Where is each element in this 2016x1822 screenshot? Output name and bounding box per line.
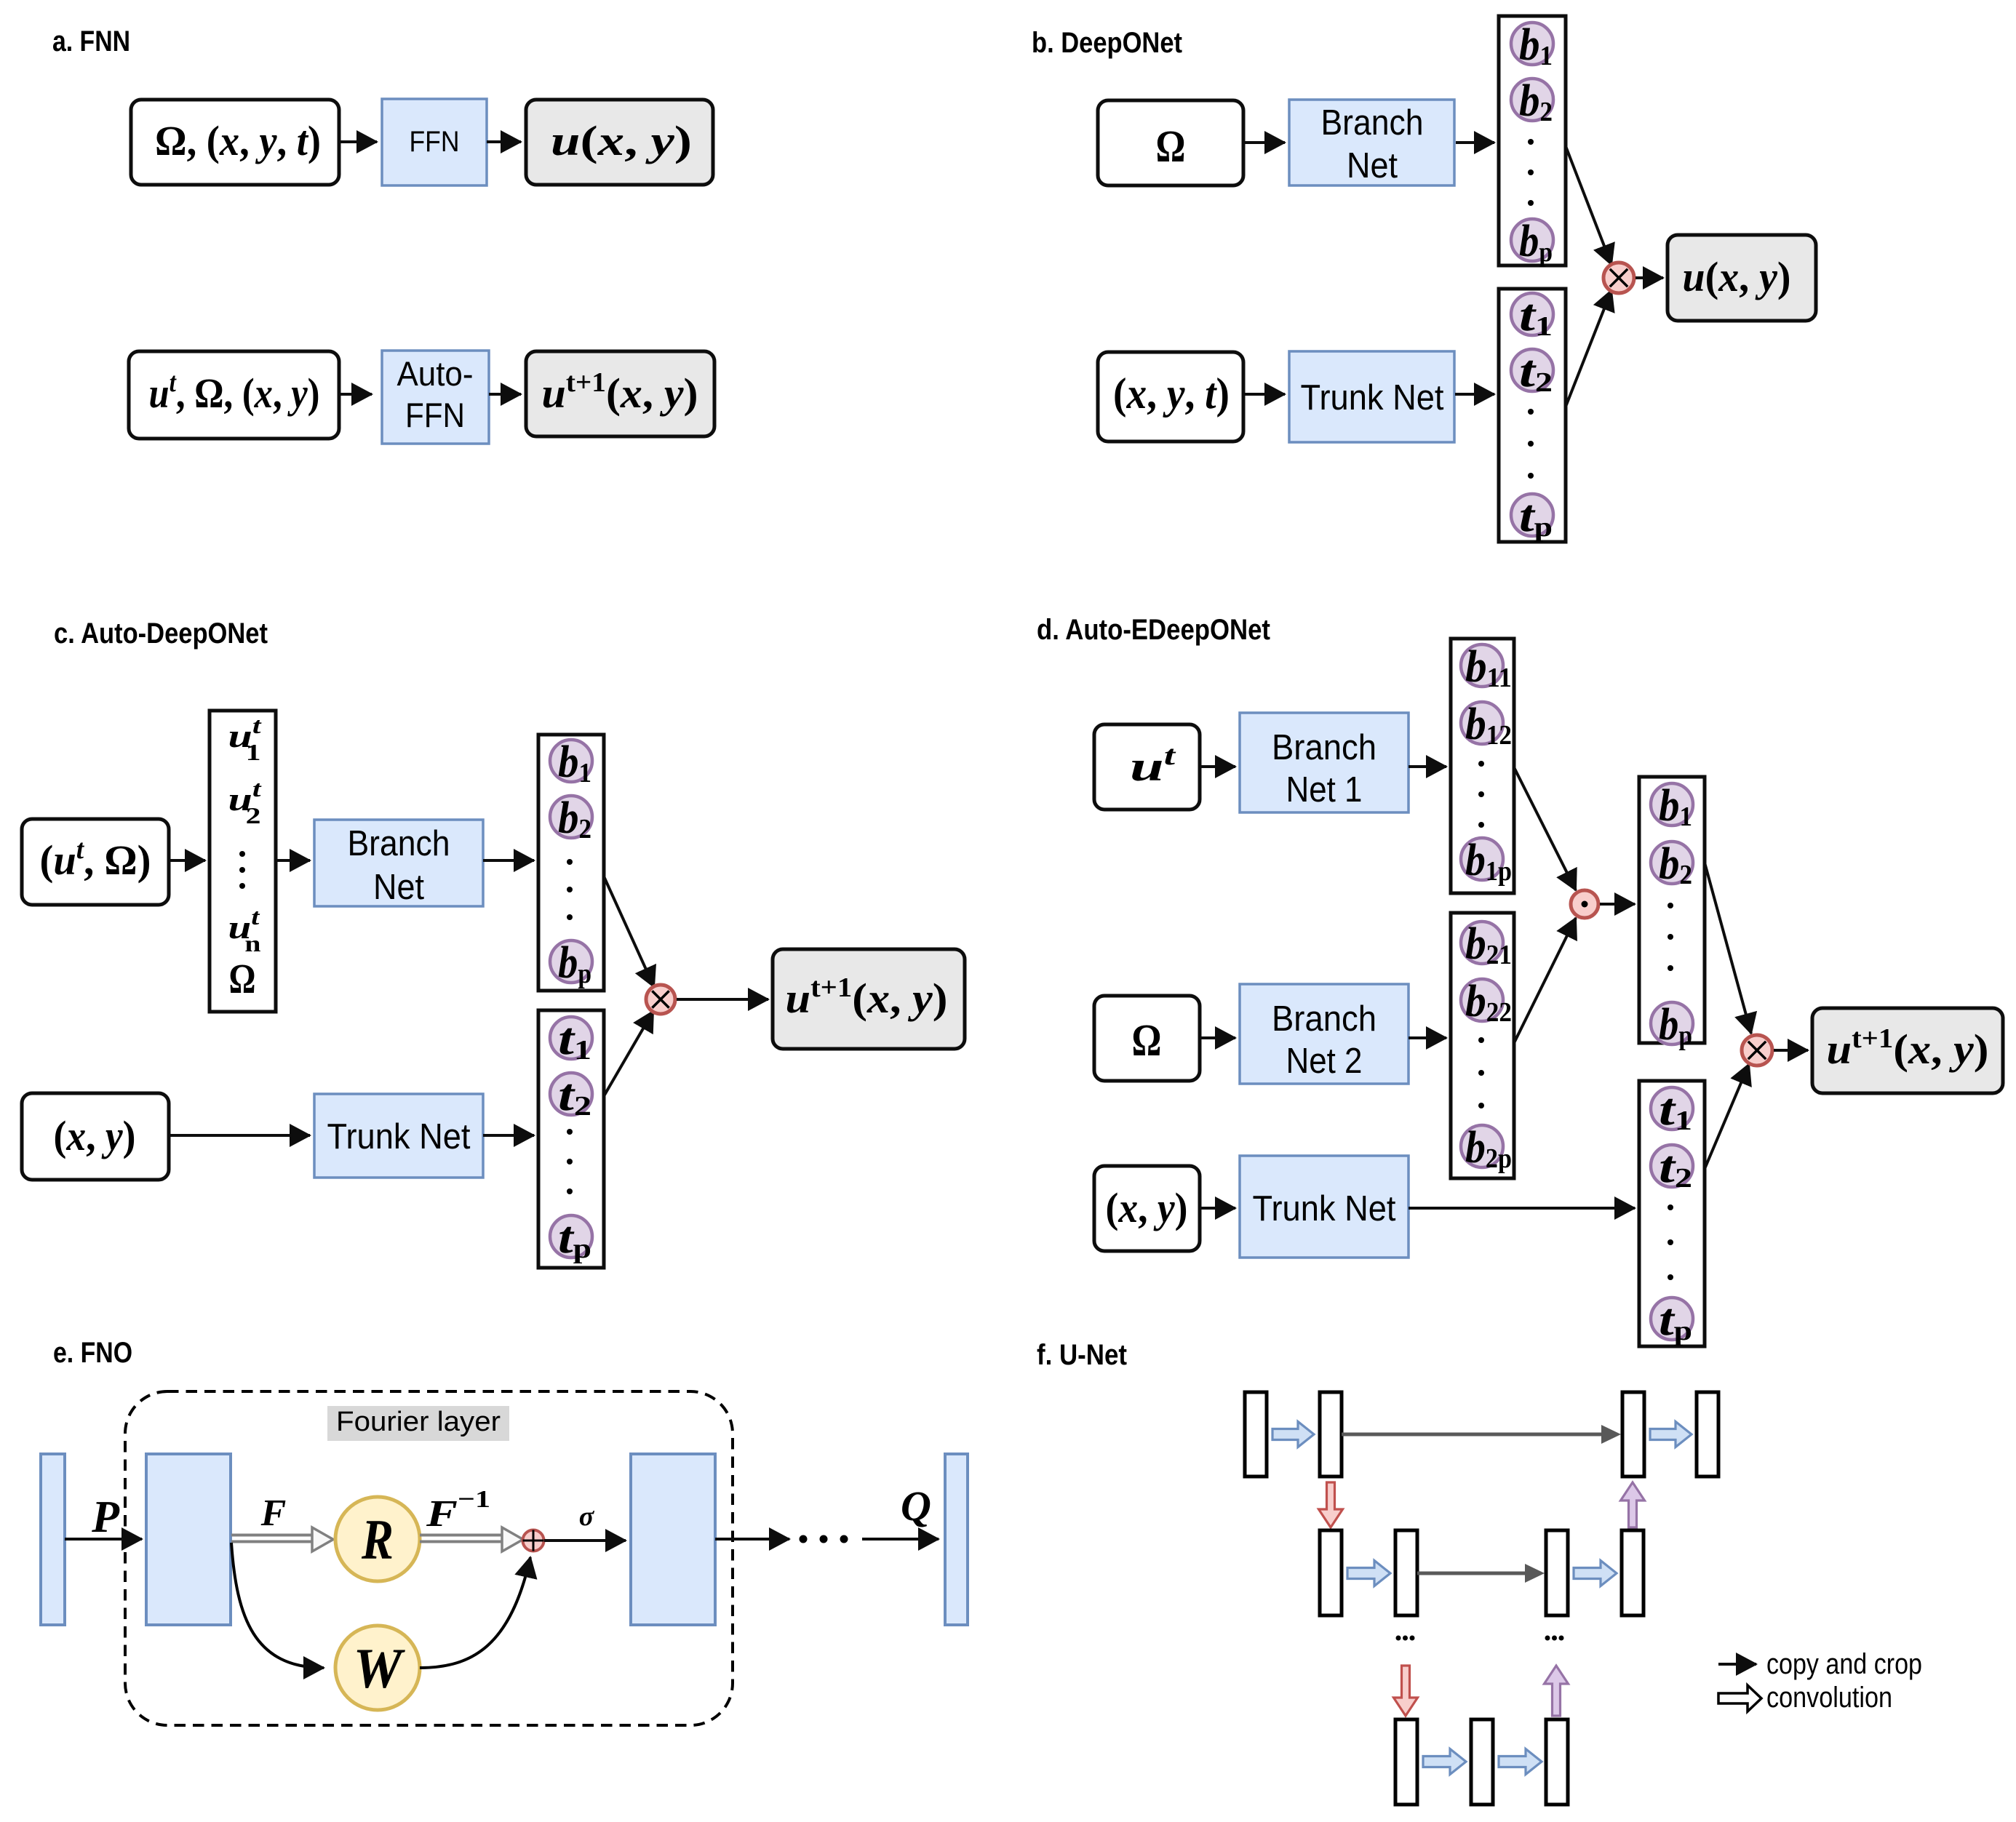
svg-text:(x, y, t): (x, y, t) (1113, 369, 1230, 417)
svg-text:F: F (260, 1493, 287, 1534)
svg-text:u(x, y): u(x, y) (551, 117, 692, 164)
svg-text:σ: σ (579, 1501, 595, 1532)
svg-text:(x, y): (x, y) (1106, 1184, 1188, 1231)
svg-text:Trunk Net: Trunk Net (327, 1117, 471, 1156)
svg-text:u(x, y): u(x, y) (1683, 253, 1791, 300)
svg-text:Trunk Net: Trunk Net (1301, 378, 1444, 417)
svg-text:ut+1(x, y): ut+1(x, y) (542, 367, 698, 417)
svg-text:e. FNO: e. FNO (53, 1337, 132, 1369)
svg-text:ut+1(x, y): ut+1(x, y) (1827, 1023, 1989, 1073)
svg-text:Ω: Ω (229, 955, 256, 1002)
svg-text:(ut, Ω): (ut, Ω) (40, 834, 151, 884)
svg-text:Auto-: Auto- (397, 354, 474, 393)
svg-text:Net 1: Net 1 (1286, 770, 1363, 810)
svg-text:Fourier layer: Fourier layer (336, 1407, 501, 1437)
svg-text:f. U-Net: f. U-Net (1037, 1339, 1127, 1371)
svg-text:Trunk Net: Trunk Net (1253, 1189, 1396, 1228)
svg-text:Ω: Ω (1132, 1016, 1162, 1066)
svg-text:copy and crop: copy and crop (1766, 1648, 1922, 1680)
svg-text:P: P (91, 1493, 120, 1542)
svg-text:Net: Net (1347, 146, 1398, 185)
svg-text:W: W (354, 1637, 405, 1700)
svg-text:FFN: FFN (405, 396, 465, 434)
svg-text:b. DeepONet: b. DeepONet (1032, 27, 1182, 59)
svg-text:Ω, (x, y, t): Ω, (x, y, t) (155, 117, 321, 164)
svg-text:FFN: FFN (410, 126, 460, 158)
svg-text:Branch: Branch (1321, 103, 1424, 143)
svg-text:Branch: Branch (1272, 728, 1376, 767)
svg-text:(x, y): (x, y) (54, 1112, 136, 1159)
svg-text:Branch: Branch (348, 824, 450, 863)
svg-text:Q: Q (901, 1482, 931, 1530)
svg-text:d. Auto-EDeepONet: d. Auto-EDeepONet (1037, 614, 1270, 646)
svg-text:convolution: convolution (1766, 1682, 1892, 1714)
svg-text:Branch: Branch (1272, 999, 1376, 1039)
svg-text:Net 2: Net 2 (1286, 1042, 1363, 1081)
svg-text:a. FNN: a. FNN (52, 25, 130, 57)
svg-text:ut+1(x, y): ut+1(x, y) (786, 972, 948, 1022)
svg-text:Ω: Ω (1156, 122, 1186, 172)
svg-text:R: R (361, 1508, 394, 1571)
svg-text:Net: Net (373, 868, 424, 907)
svg-text:c. Auto-DeepONet: c. Auto-DeepONet (54, 618, 268, 650)
